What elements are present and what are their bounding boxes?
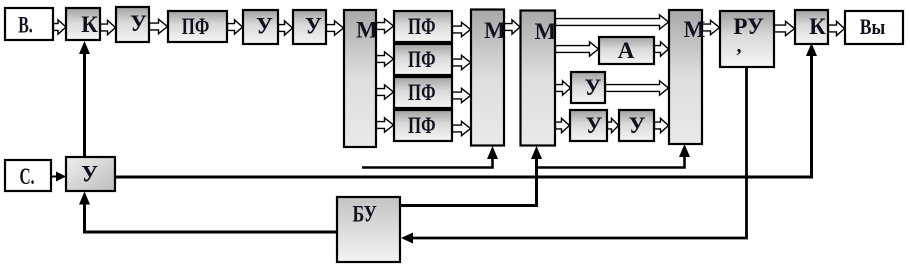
open arrow М1 to ПФ3 [377,52,394,66]
svg-text:К: К [81,12,98,37]
svg-text:А: А [618,38,635,63]
open arrow РУ to К2 [775,21,795,35]
open arrow ПФ4 to М2 [453,88,471,102]
block У5 (amplifier) [570,110,607,141]
wire РУ down and left to БУ with left arrowhead [412,67,747,238]
open arrow ПФ2 to М2 [453,22,471,36]
block К2 (commutator) [795,10,828,44]
block У3 (amplifier) [293,10,326,44]
svg-text:С.: С. [20,164,35,189]
wire segment to М2 with up arrowhead [362,157,493,168]
block С (reference input) [5,160,51,191]
svg-text:БУ: БУ [352,201,376,226]
open arrow М1 to ПФ5 [377,118,394,132]
block ПФ3 (bandpass filter) [394,44,452,75]
open arrow У5 to У6 [608,118,619,132]
wire У7 up to К1 with arrowhead [83,52,86,157]
svg-text:В.: В. [18,13,33,38]
open arrow В to К [54,20,67,34]
block ПФ4 (bandpass filter) [394,77,452,108]
open arrow К2 to Вы [829,21,845,35]
block У6 (amplifier) [619,110,654,141]
block ПФ1 (bandpass filter) [168,11,227,42]
svg-text:Вы: Вы [860,14,886,39]
open arrow А to М4 [655,42,669,56]
block У7 (control amplifier) [66,157,115,191]
wire У7 long output to К2: horizontal then up with arrowhead [115,54,812,177]
wire БУ left and up to У7 with up arrowhead [85,202,338,232]
svg-text:ПФ: ПФ [408,80,436,105]
svg-text:М: М [356,18,378,43]
open arrow У1 to ПФ1 [150,19,168,33]
block У2 (amplifier) [243,10,278,44]
open arrow У6 to М4 [655,118,669,132]
block Вы (output) [845,11,903,44]
block БУ (control unit) [337,197,400,262]
open arrow ПФ1 to У2 [228,20,243,34]
svg-text:У: У [256,14,273,39]
svg-text:ПФ: ПФ [408,113,436,138]
block ПФ2 (bandpass filter) [394,11,452,42]
block А (analyzer) [599,37,654,64]
open arrow М3 to У5 [556,118,570,132]
svg-text:У: У [81,162,98,187]
block В (input) [5,8,53,40]
open arrow ПФ3 to М2 [453,55,471,69]
block М4 (multiplexer) [669,10,702,144]
svg-text:У: У [584,75,601,100]
long open arrow У4 to М4 [606,81,669,95]
svg-text:К: К [809,14,826,39]
open arrow М3 to А [556,42,599,56]
wire БУ to М3 with up arrowhead and branch to М4 [400,157,537,206]
block М2 (multiplexer) [471,10,504,146]
svg-text:ПФ: ПФ [408,14,436,39]
long open arrow М3 to М4 (top row) [556,15,669,29]
svg-text:У: У [130,11,147,36]
block РУ (adjustable amplifier) [720,11,774,67]
open arrow У2 to У3 [279,21,293,35]
svg-text:У: У [629,113,646,138]
svg-text:,: , [737,35,742,57]
svg-text:М: М [484,18,506,43]
svg-text:М: М [535,19,557,44]
open arrow К to У1 [101,20,116,34]
open arrow М3 to У4 [556,81,571,95]
block М1 (multiplexer) [344,10,376,147]
open arrow М1 to ПФ2 [377,19,394,33]
open arrow М2 to М3 [505,20,521,34]
open arrow М4 to РУ [703,20,720,34]
wire branch from БУ riser to М4 with up arrowhead [537,155,685,168]
block ПФ5 (bandpass filter) [394,110,452,141]
svg-text:У: У [305,14,322,39]
block У4 (amplifier) [571,72,605,103]
svg-text:ПФ: ПФ [408,47,436,72]
block К1 (commutator) [66,8,100,40]
open arrow М1 to ПФ4 [377,85,394,99]
block М3 (multiplexer) [521,11,556,146]
svg-text:ПФ: ПФ [182,14,210,39]
open arrow У3 to М1 [327,21,344,35]
svg-text:У: У [586,113,603,138]
solid arrow С to У7 [51,176,58,178]
open arrow ПФ5 to М2 [453,121,471,135]
block У1 (amplifier) [116,7,149,42]
